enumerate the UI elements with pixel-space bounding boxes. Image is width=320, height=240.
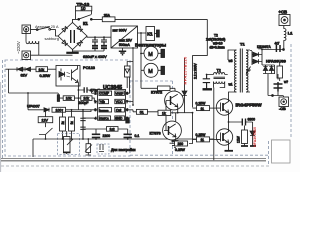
svg-text:КТ973: КТ973 (150, 132, 161, 136)
svg-text:GND: GND (115, 117, 123, 121)
gnd under IGBT2 (225, 146, 234, 151)
frame left grey scan edge (0, 82, 2, 172)
15V rail down (133, 33, 146, 105)
svg-text:51: 51 (140, 111, 144, 115)
svg-text:Т1: Т1 (240, 42, 245, 47)
wire 300V down right (193, 19, 208, 107)
output cap (273, 95, 284, 97)
bridge diode D1 (62, 26, 68, 32)
converter module box (111, 26, 138, 48)
svg-text:-СВ: -СВ (279, 107, 286, 111)
svg-text:VCC: VCC (116, 100, 123, 104)
svg-text:w3: w3 (229, 59, 233, 63)
resistor 1k (158, 110, 171, 115)
svg-text:КД2997А: КД2997А (257, 45, 271, 49)
svg-text:0.25W: 0.25W (196, 133, 207, 137)
svg-text:COMP: COMP (100, 92, 110, 96)
svg-text:620uF x 400V: 620uF x 400V (83, 55, 107, 59)
terminal ~220V top (22, 25, 31, 34)
svg-text:RW/Ct: RW/Ct (99, 117, 108, 121)
bridge rectifier (58, 23, 87, 50)
choke coil (26, 29, 39, 55)
dashed box power section (130, 81, 173, 154)
dashed box control section (5, 60, 130, 156)
IGBT bottom (216, 129, 232, 145)
svg-text:12V: 12V (42, 119, 49, 123)
terminal ~220V bottom (22, 51, 31, 60)
svg-text:M: M (148, 52, 153, 58)
cap 470pF (78, 86, 84, 110)
fan motor M1 (144, 46, 158, 60)
red diode HFA25TB120 (182, 58, 187, 113)
snubber cap 6800 (242, 119, 245, 126)
svg-text:~220V: ~220V (16, 41, 21, 54)
frame dashed left edge (2, 60, 4, 160)
relay contact K1 top (73, 11, 92, 23)
svg-text:0.25W: 0.25W (175, 148, 186, 152)
svg-text:Isense: Isense (99, 108, 108, 112)
gnd bars (241, 145, 256, 147)
resistor 280 0.25W (175, 141, 188, 146)
svg-text:11: 11 (201, 138, 205, 142)
resistor 12W vertical (244, 126, 246, 131)
diode on vcc line (125, 66, 131, 77)
bridge diode D4 (77, 40, 83, 46)
resistor 10k a (63, 96, 74, 101)
cap left of divider (57, 95, 59, 102)
resistor 10k 0.25W (36, 67, 48, 72)
svg-text:пит 300V: пит 300V (113, 29, 128, 33)
ground under converter (122, 48, 124, 51)
resistor top of KT972 (141, 70, 175, 88)
gnd rail under caps (73, 50, 105, 52)
svg-text:L1: L1 (288, 31, 293, 36)
svg-text:IRG4PF50W: IRG4PF50W (236, 103, 263, 108)
svg-text:4к7: 4к7 (275, 41, 280, 45)
svg-text:10: 10 (81, 6, 86, 11)
box 10 (76, 6, 92, 11)
svg-text:0.25W: 0.25W (40, 74, 51, 78)
lower diodes (262, 65, 275, 74)
gnd under KT973 (172, 140, 179, 142)
svg-text:200pF: 200pF (79, 101, 89, 105)
wire -CB left (268, 74, 273, 96)
zener pair 62V (6, 67, 37, 71)
+300V rail (87, 36, 111, 37)
resistor 51 (136, 109, 147, 114)
output rectifier diodes (250, 51, 262, 66)
wire driver to gates (166, 101, 197, 144)
terminal -CB (279, 97, 289, 107)
T1 mid tap slash (246, 67, 251, 75)
wire AC bottom (31, 54, 73, 56)
breaker switch Автомат 25 А (31, 27, 59, 36)
vertical resistor a (60, 117, 66, 131)
svg-text:VREF: VREF (115, 92, 123, 96)
capacitor X2 inside bridge (71, 30, 75, 43)
IGBT top (216, 99, 232, 115)
ground under bridge (72, 50, 74, 53)
svg-text:1k: 1k (162, 112, 166, 116)
svg-text:HFA25TB120: HFA25TB120 (182, 56, 187, 84)
svg-text:10k: 10k (39, 68, 45, 72)
svg-text:Автомат 25 А: Автомат 25 А (35, 25, 59, 29)
svg-text:Для настройки: Для настройки (111, 148, 136, 152)
svg-text:M: M (148, 69, 153, 75)
caps 2200 under IC (83, 118, 128, 134)
svg-text:HFA30U60: HFA30U60 (266, 59, 287, 64)
svg-text:0.1: 0.1 (135, 134, 140, 138)
thermal switch (39, 128, 53, 139)
svg-text:КТ972: КТ972 (151, 91, 162, 95)
trimmer dashed box (58, 134, 80, 155)
resistor 10k b (81, 96, 92, 101)
svg-text:100: 100 (56, 108, 62, 112)
driver output node (178, 112, 193, 114)
cap 620uF 1 (92, 37, 98, 45)
svg-text:2200: 2200 (103, 134, 111, 138)
resistor 1k2 under IC (107, 127, 119, 132)
svg-text:11: 11 (201, 107, 205, 111)
svg-text:PC123: PC123 (83, 65, 95, 70)
svg-text:w1: w1 (229, 83, 233, 87)
svg-text:6800: 6800 (248, 118, 256, 122)
trimmer 2 near connector (86, 144, 91, 153)
bottom bus (33, 88, 214, 161)
box 12V (38, 117, 53, 123)
svg-text:+СВ: +СВ (279, 9, 288, 14)
svg-text:Out: Out (116, 108, 121, 112)
connector для настройки (97, 144, 109, 154)
pin wires (65, 77, 134, 118)
svg-text:10k: 10k (66, 97, 72, 101)
cap right of GND pin (126, 118, 129, 123)
svg-text:280: 280 (178, 142, 184, 146)
inductor L1 (284, 26, 286, 50)
trimmer resistor (64, 137, 71, 153)
diode with red label at IGBT (250, 128, 255, 144)
T1 primary connections (228, 50, 237, 99)
svg-text:2.2 х 360V: 2.2 х 360V (193, 62, 197, 79)
svg-text:w?: w? (284, 80, 288, 84)
bridge diode D2 (77, 26, 83, 32)
corner white box bottom-right (272, 140, 291, 163)
vertical resistor b (69, 117, 75, 131)
cap 620uF 2 (101, 37, 107, 45)
svg-text:Vfb: Vfb (100, 100, 105, 104)
svg-text:K1: K1 (147, 32, 153, 37)
svg-text:12W: 12W (237, 135, 241, 143)
svg-text:62V: 62V (21, 73, 28, 77)
IC box UC3845 (98, 90, 126, 121)
svg-text:sabburg: sabburg (45, 36, 59, 41)
svg-text:К1: К1 (83, 21, 89, 26)
svg-text:0.25W: 0.25W (196, 102, 207, 106)
bridge diode D3 (62, 40, 68, 46)
T1 secondary connections (246, 50, 250, 92)
half bridge node (229, 116, 241, 129)
svg-text:d2=0.8mm: d2=0.8mm (210, 46, 225, 50)
resistor 100 (52, 107, 66, 112)
relay coil K1 (146, 27, 155, 41)
svg-text:500mA: 500mA (119, 43, 130, 47)
vertical resistor output (277, 66, 283, 78)
frame bottom dashed line (1, 165, 271, 167)
svg-text:1к2: 1к2 (110, 127, 115, 131)
svg-text:UF4007: UF4007 (27, 105, 40, 109)
frame bottom grey double bar (1, 157, 266, 159)
svg-text:HFA30TB60: HFA30TB60 (253, 127, 257, 147)
optocoupler PC123 (56, 66, 80, 87)
fan motor M2 (144, 63, 158, 77)
svg-text:Т2: Т2 (217, 69, 221, 73)
